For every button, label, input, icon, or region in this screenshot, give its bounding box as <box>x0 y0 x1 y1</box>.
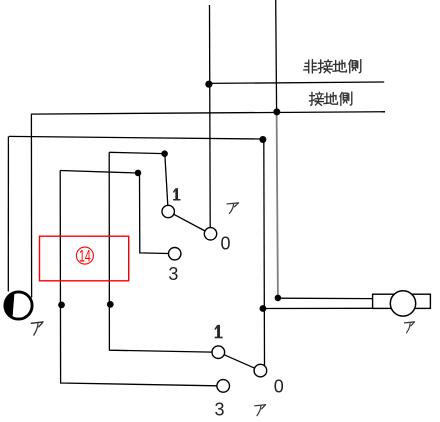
svg-text:3: 3 <box>168 264 178 284</box>
svg-text:0: 0 <box>274 377 284 397</box>
svg-text:3: 3 <box>214 400 224 420</box>
svg-text:0: 0 <box>220 234 230 254</box>
svg-text:14: 14 <box>79 246 91 265</box>
